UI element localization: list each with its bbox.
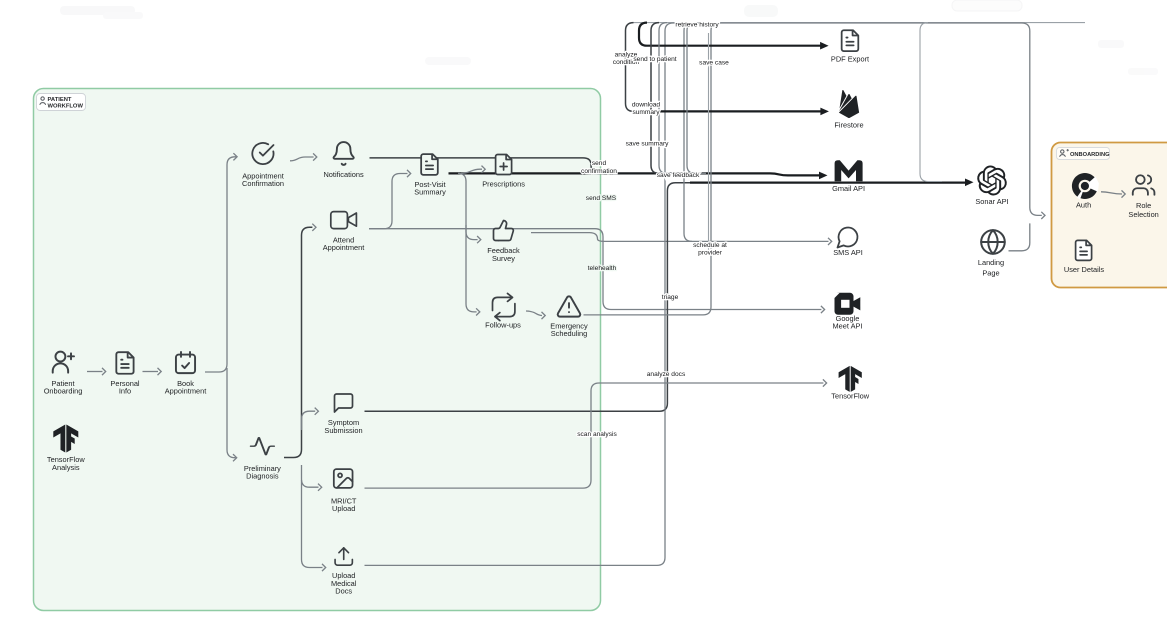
svg-text:SMS API: SMS API — [833, 248, 863, 257]
node Follow-ups icon — [493, 293, 515, 320]
wire Attend Appointment to Post-Visit Summary — [369, 174, 408, 229]
node Emergency Scheduling icon — [558, 296, 581, 316]
node Appointment Confirmation icon — [252, 143, 273, 164]
container ONBOARDING — [1052, 143, 1167, 288]
svg-text:confirmation: confirmation — [581, 168, 617, 175]
wire Book Appointment to Appointment Confirmation — [205, 157, 236, 372]
wire MRI/CT Upload to TensorFlow (scan analysis) — [365, 383, 824, 488]
svg-text:provider: provider — [698, 249, 723, 256]
svg-text:WORKFLOW: WORKFLOW — [48, 104, 84, 110]
wire Appointment Confirmation to Notifications — [290, 157, 314, 161]
wire Book Appointment to Preliminary Diagnosis — [227, 368, 236, 458]
svg-text:Diagnosis: Diagnosis — [246, 472, 279, 481]
svg-text:send: send — [592, 160, 607, 167]
svg-text:Scheduling: Scheduling — [551, 329, 588, 338]
svg-text:Page: Page — [982, 269, 999, 278]
container ONBOARDING label box — [1057, 148, 1111, 160]
wire Post-Visit Summary to Prescriptions — [461, 169, 482, 173]
wire Preliminary Diagnosis to Symptom Submission — [302, 411, 316, 430]
svg-text:Sonar API: Sonar API — [975, 197, 1008, 206]
svg-text:Follow-ups: Follow-ups — [485, 321, 521, 330]
node Notifications icon — [334, 142, 354, 165]
svg-text:PDF Export: PDF Export — [831, 55, 869, 64]
svg-text:telehealth: telehealth — [588, 265, 617, 272]
wire Landing Page to ONBOARDING merge — [1009, 223, 1030, 250]
wire top drop merge to Gmail line (x659) — [659, 23, 690, 174]
svg-text:Info: Info — [119, 386, 131, 395]
svg-text:Firestore: Firestore — [834, 121, 863, 130]
wire Auth to Role Selection — [1101, 192, 1122, 194]
node Feedback Survey icon — [494, 221, 514, 241]
svg-text:retrieve history: retrieve history — [675, 21, 719, 28]
wire top bus horizontal — [633, 22, 1085, 24]
svg-text:Appointment: Appointment — [165, 386, 207, 395]
wire Post-Visit Summary down to Follow-ups — [466, 225, 477, 312]
svg-text:analyze docs: analyze docs — [647, 371, 686, 378]
node Prescriptions icon — [496, 155, 512, 175]
svg-text:summary: summary — [632, 109, 660, 116]
svg-text:Confirmation: Confirmation — [242, 179, 284, 188]
node TensorFlow right icon — [839, 366, 862, 392]
node Gmail API icon — [835, 160, 863, 181]
svg-text:Meet API: Meet API — [833, 322, 863, 331]
svg-text:Submission: Submission — [324, 426, 362, 435]
svg-text:Gmail API: Gmail API — [832, 184, 865, 193]
wire faint vertical x708 — [708, 33, 710, 250]
node PDF Export icon — [842, 30, 859, 51]
node Personal Info icon — [116, 352, 133, 374]
node TensorFlow Analysis icon — [53, 425, 78, 453]
node Preliminary Diagnosis icon — [251, 438, 274, 455]
svg-text:scan analysis: scan analysis — [577, 431, 617, 438]
svg-text:Summary: Summary — [414, 188, 446, 197]
container PATIENT WORKFLOW label box — [37, 94, 86, 111]
container PATIENT WORKFLOW — [34, 89, 601, 611]
svg-text:User Details: User Details — [1064, 265, 1105, 274]
svg-text:save summary: save summary — [626, 140, 670, 147]
wire Feedback Survey to schedule line — [531, 233, 692, 242]
wire top drop merge to Gmail line (x651) — [651, 23, 680, 174]
svg-text:save feedback: save feedback — [657, 172, 700, 179]
wire thick segment into Sonar API — [690, 182, 965, 184]
wire Post-Visit Summary to Gmail API thick (send confirmation) — [449, 173, 820, 175]
wire Patient Onboarding to Personal Info — [87, 371, 103, 373]
svg-text:Notifications: Notifications — [323, 170, 364, 179]
svg-text:Role: Role — [1136, 201, 1151, 210]
svg-text:Prescriptions: Prescriptions — [482, 180, 525, 189]
svg-text:download: download — [632, 102, 661, 109]
node SMS API icon — [838, 228, 858, 248]
node Firestore icon — [839, 90, 859, 118]
wire Notifications to Gmail merge (send confirmation) — [370, 158, 701, 174]
svg-text:Landing: Landing — [978, 258, 1004, 267]
svg-text:Appointment: Appointment — [323, 243, 365, 252]
node Auth icon — [1072, 173, 1099, 200]
wire Follow-ups to Emergency Scheduling — [526, 311, 542, 316]
wire Preliminary Diagnosis to Attend Appointment — [284, 227, 312, 457]
svg-text:Auth: Auth — [1076, 200, 1091, 209]
faint artifact marks top — [60, 0, 1158, 75]
svg-text:send SMS: send SMS — [586, 195, 617, 202]
svg-text:Selection: Selection — [1128, 210, 1158, 219]
wire Symptom Submission up to Sonar API line — [365, 183, 959, 411]
svg-text:schedule at: schedule at — [693, 242, 727, 249]
node Upload Medical Docs icon — [335, 548, 352, 565]
wire Emergency Scheduling up over top at x711 — [584, 23, 720, 315]
node Role Selection icon — [1133, 175, 1155, 194]
svg-text:ONBOARDING: ONBOARDING — [1070, 152, 1110, 158]
wire Personal Info to Book Appointment — [143, 371, 159, 373]
node Sonar API icon — [977, 166, 1007, 196]
node MRI/CT Upload icon — [334, 469, 353, 488]
wire top drop merge to Gmail line (x687) — [687, 23, 706, 174]
wire Upload Medical Docs over top to ONBOARDING — [365, 23, 1042, 565]
svg-text:save case: save case — [699, 60, 729, 67]
svg-text:triage: triage — [662, 294, 679, 301]
node Landing Page icon — [981, 230, 1005, 254]
node Patient Onboarding icon — [53, 352, 74, 373]
wire top drop to PDF Export (x639) — [639, 23, 821, 46]
svg-text:send to patient: send to patient — [633, 56, 676, 63]
svg-text:Docs: Docs — [335, 586, 352, 595]
svg-text:Analysis: Analysis — [52, 463, 80, 472]
wire Attend Appointment to Google Meet API (telehealth) — [369, 229, 821, 310]
node Attend Appointment icon — [331, 212, 357, 229]
wire Preliminary Diagnosis to Upload Medical Docs — [302, 480, 323, 568]
svg-text:Survey: Survey — [492, 254, 515, 263]
node Book Appointment icon — [176, 352, 195, 373]
svg-text:PATIENT: PATIENT — [48, 97, 72, 103]
node Google Meet API icon — [835, 293, 861, 315]
svg-text:TensorFlow: TensorFlow — [831, 392, 869, 401]
svg-text:Onboarding: Onboarding — [44, 386, 83, 395]
svg-text:Upload: Upload — [332, 504, 355, 513]
wire thick segment into Firestore — [655, 110, 821, 112]
wire Preliminary Diagnosis to MRI/CT Upload — [302, 465, 319, 487]
wire top drop to Firestore (x625) — [626, 23, 701, 112]
wire top drop to Sonar line (x920) — [920, 23, 942, 182]
wire top drop to SMS API (x684) — [684, 23, 829, 242]
node Post-Visit Summary icon — [421, 154, 438, 175]
node Symptom Submission icon — [335, 394, 353, 412]
wire Post-Visit Summary down to Feedback Survey — [458, 173, 478, 239]
node User Details icon — [1076, 240, 1092, 260]
